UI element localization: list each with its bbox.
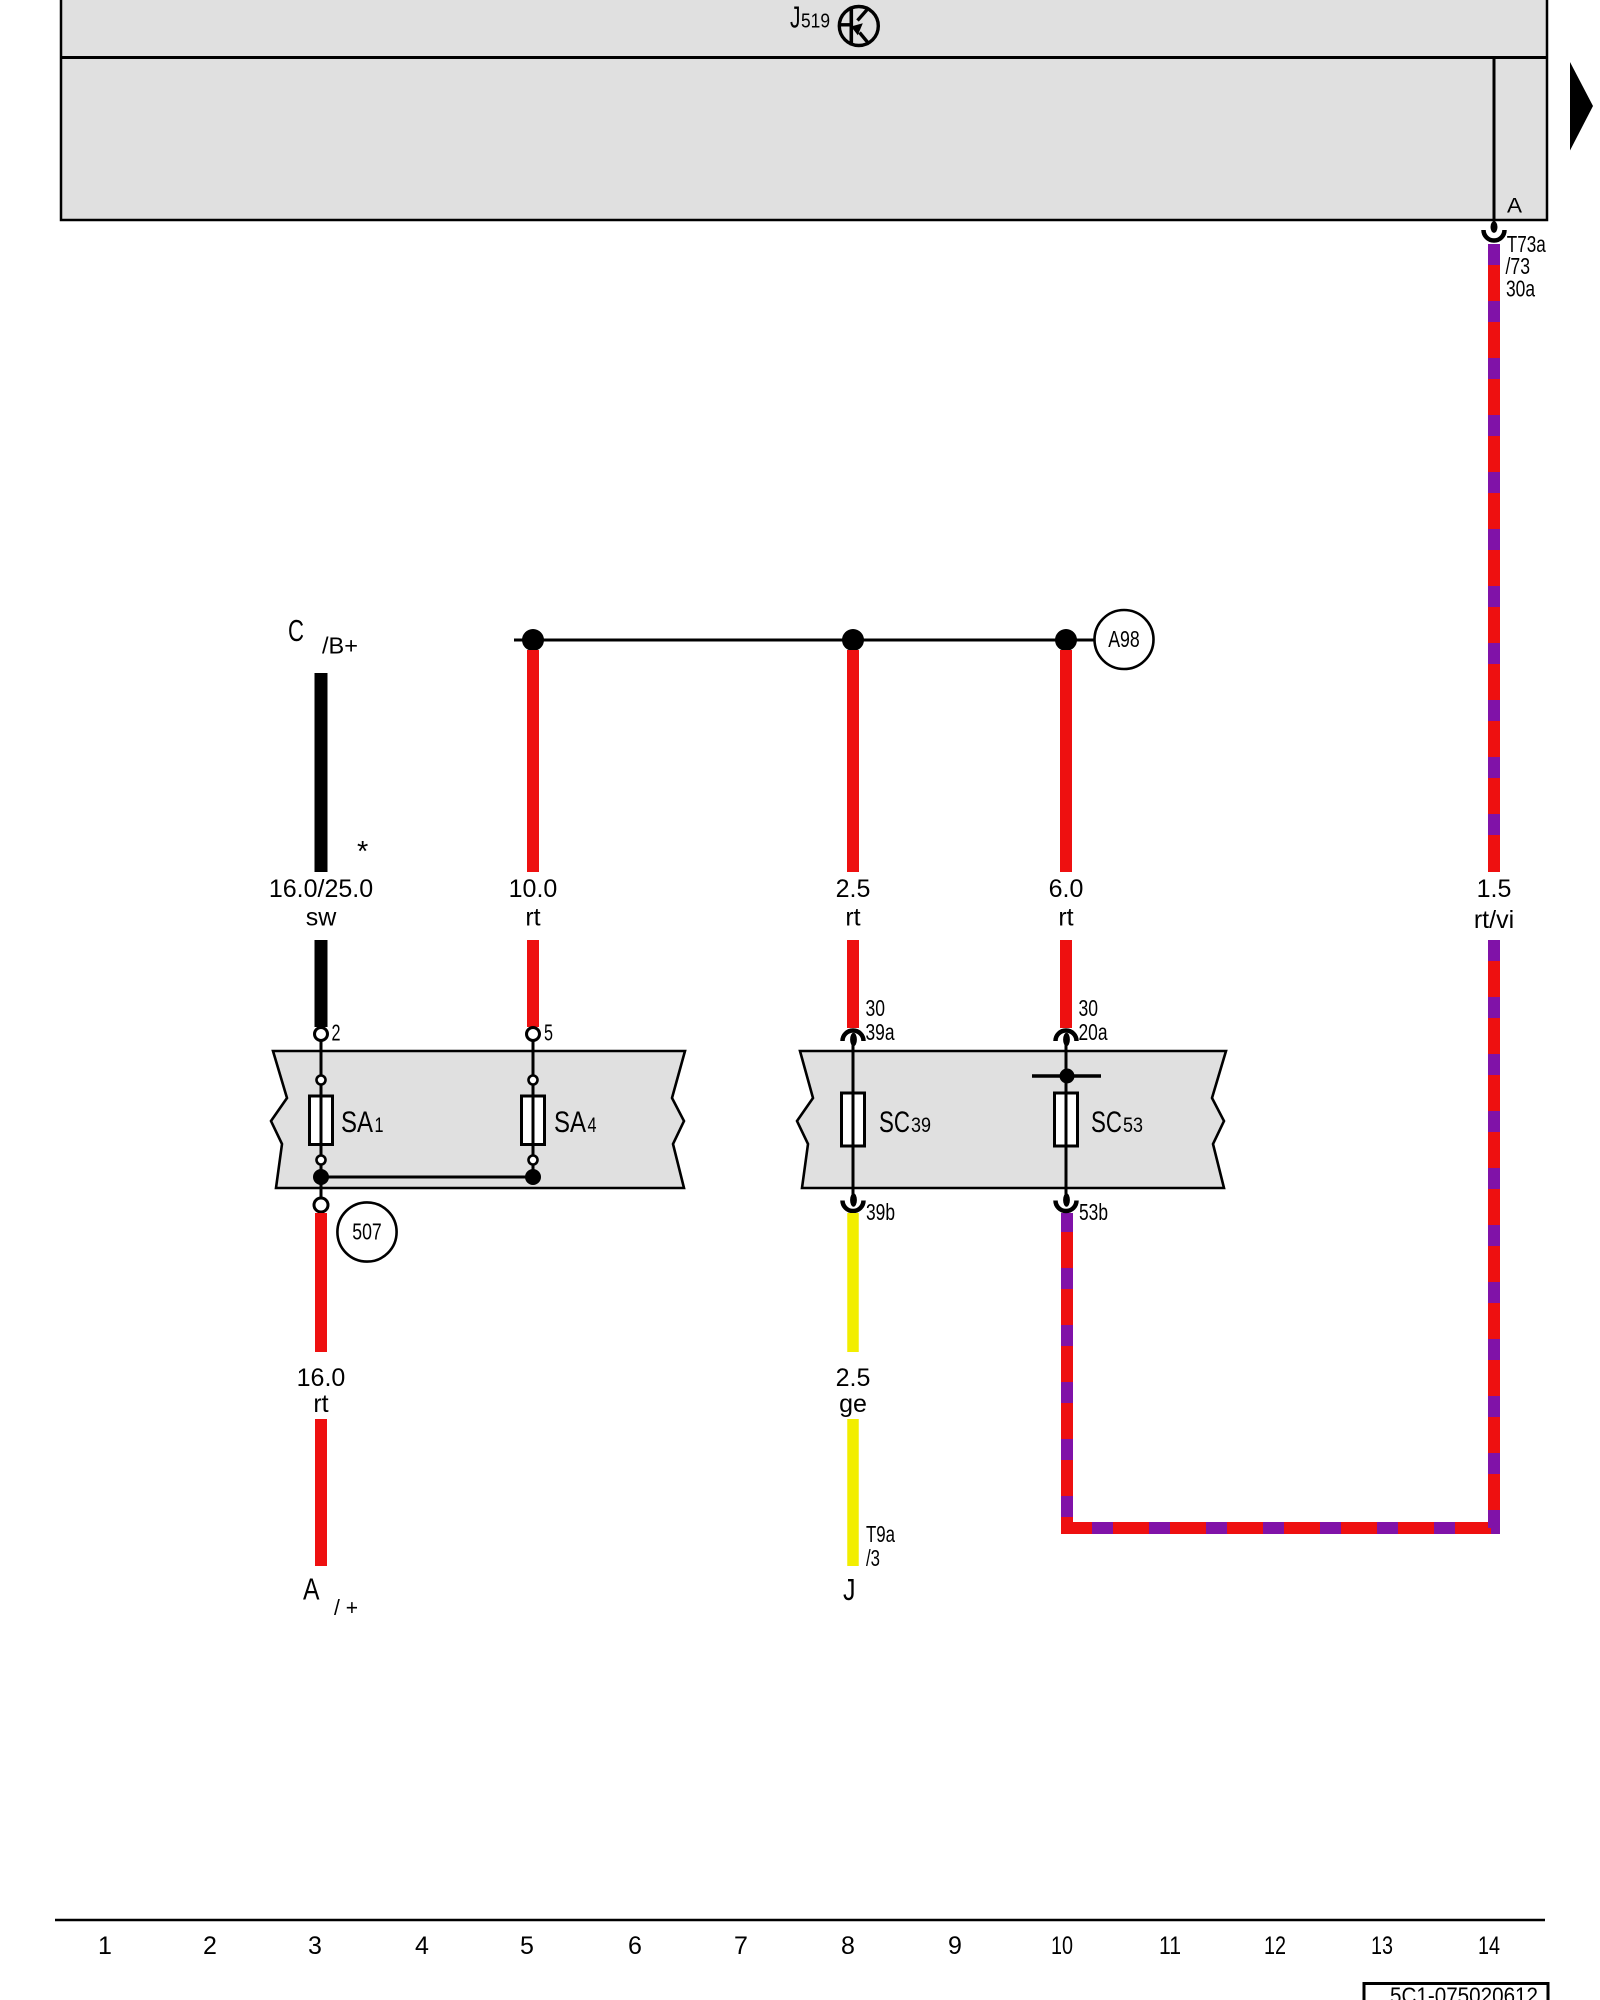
drawing number box [1364, 1983, 1548, 2000]
connector T73a pin [1484, 219, 1505, 241]
connector 53b pin+arc [1056, 1187, 1077, 1211]
grid numbers 1-14 [98, 1932, 1500, 1960]
label 6.0 rt [1049, 875, 1084, 932]
svg-text:519: 519 [801, 10, 830, 33]
svg-text:39b: 39b [866, 1199, 895, 1225]
svg-text:SA: SA [341, 1106, 373, 1139]
labels T9a /3 [866, 1521, 896, 1571]
label SC39 [879, 1106, 931, 1139]
connector 20a arc+pin (col 10) [1056, 1031, 1077, 1053]
terminal 5 circle (SA4 input) [527, 1028, 540, 1041]
svg-text:1: 1 [98, 1932, 112, 1960]
terminal circle (507 node) [314, 1198, 328, 1212]
pin A vertical line inside band [1493, 58, 1496, 221]
label SA1 [341, 1106, 384, 1139]
svg-text:/ +: / + [334, 1595, 358, 1620]
bottom grid line [55, 1919, 1545, 1922]
wire ge 2.5 lower [847, 1419, 859, 1566]
svg-text:20a: 20a [1079, 1019, 1109, 1045]
svg-text:rt: rt [313, 1390, 328, 1418]
svg-text:7: 7 [734, 1932, 748, 1960]
svg-text:8: 8 [841, 1932, 855, 1960]
fuse box SC (right, torn edges) [797, 1051, 1226, 1188]
svg-text:53: 53 [1123, 1114, 1143, 1137]
junction node col8 [842, 629, 864, 651]
svg-text:2.5: 2.5 [836, 875, 871, 903]
svg-text:3: 3 [308, 1932, 322, 1960]
label SC53 [1091, 1106, 1143, 1139]
svg-text:10: 10 [1051, 1932, 1073, 1960]
svg-text:A98: A98 [1108, 626, 1140, 652]
svg-text:39a: 39a [866, 1019, 896, 1045]
wire sw battery lower [315, 940, 328, 1027]
svg-text:6: 6 [628, 1932, 642, 1960]
junction node col10 [1055, 629, 1077, 651]
terminal 2 circle (SA1 input) [315, 1028, 328, 1041]
svg-text:rt: rt [525, 904, 540, 932]
wire rt 16.0 lower [315, 1419, 327, 1566]
svg-text:4: 4 [588, 1114, 597, 1137]
svg-text:2.5: 2.5 [836, 1364, 871, 1392]
junction node col5 [522, 629, 544, 651]
label A /+ (battery) [303, 1572, 358, 1621]
svg-text:/B+: /B+ [322, 633, 358, 659]
wire rt/vi lower U-path to 53b [1067, 940, 1494, 1528]
svg-text:30a: 30a [1506, 276, 1536, 302]
control-module symbol (circle with arrow K icon) [839, 7, 878, 46]
svg-text:5: 5 [520, 1932, 534, 1960]
svg-text:30: 30 [1079, 995, 1099, 1021]
svg-text:A: A [303, 1572, 320, 1607]
svg-text:sw: sw [306, 904, 338, 932]
junction dots + tie line SA1-SA4 outputs [313, 1169, 541, 1185]
node label 507 [337, 1202, 396, 1261]
svg-text:A: A [1507, 194, 1523, 218]
wire sw battery upper (col 3) [315, 673, 328, 872]
wire rt 2.5 upper (col 8) [847, 650, 859, 872]
wire rt 2.5 lower [847, 940, 859, 1028]
svg-text:2: 2 [203, 1932, 217, 1960]
labels T73a /73 30a [1506, 231, 1547, 302]
label 16.0 rt [297, 1364, 346, 1418]
svg-text:16.0: 16.0 [297, 1364, 346, 1392]
svg-text:ge: ge [839, 1390, 867, 1418]
labels 30 / 39a [866, 995, 896, 1045]
svg-text:rt: rt [1058, 904, 1073, 932]
label 1.5 rt/vi [1474, 875, 1514, 934]
label C /B+ [288, 613, 358, 659]
svg-text:SC: SC [879, 1106, 910, 1139]
svg-text:507: 507 [352, 1219, 382, 1245]
fuse SA4 internals [522, 1041, 545, 1178]
label 2.5 ge [836, 1364, 871, 1418]
svg-text:/3: /3 [866, 1545, 880, 1571]
labels 30 / 20a [1079, 995, 1109, 1045]
continuation arrow right [1570, 62, 1593, 151]
svg-text:J: J [790, 0, 801, 35]
svg-text:*: * [357, 836, 368, 868]
svg-text:13: 13 [1371, 1932, 1393, 1960]
svg-text:9: 9 [948, 1932, 962, 1960]
label SA4 [554, 1106, 597, 1139]
svg-text:rt: rt [845, 904, 860, 932]
svg-text:11: 11 [1159, 1932, 1181, 1960]
svg-text:C: C [288, 613, 304, 648]
svg-text:rt/vi: rt/vi [1474, 906, 1514, 934]
connector 39b pin+arc [843, 1187, 864, 1211]
svg-text:5C1-075020612: 5C1-075020612 [1390, 1983, 1538, 2000]
wire rt 6.0 lower [1060, 940, 1072, 1028]
fuse box SA (left, torn edges) [271, 1051, 685, 1188]
label 16.0/25.0 sw [269, 875, 373, 932]
fuse SC39 internals [842, 1050, 865, 1187]
svg-text:1: 1 [375, 1114, 384, 1137]
label 10.0 rt [509, 875, 558, 932]
svg-text:6.0: 6.0 [1049, 875, 1084, 903]
control module J519 band [61, 0, 1547, 220]
node label A98 [1095, 610, 1154, 669]
wire rt 10.0 lower [527, 940, 539, 1027]
node bus line [514, 639, 1095, 642]
label J519 [790, 0, 830, 35]
svg-text:14: 14 [1478, 1932, 1500, 1960]
svg-text:4: 4 [415, 1932, 429, 1960]
wire ge 2.5 upper (col 8) [847, 1213, 859, 1352]
svg-text:5: 5 [544, 1020, 553, 1046]
SA1 output line through box bottom [320, 1177, 323, 1198]
svg-text:SC: SC [1091, 1106, 1122, 1139]
svg-text:SA: SA [554, 1106, 586, 1139]
fuse SA1 internals [310, 1041, 333, 1178]
wire rt 10.0 upper (col 5) [527, 650, 539, 872]
svg-text:53b: 53b [1079, 1199, 1108, 1225]
wire rt 16.0 upper [315, 1213, 327, 1352]
svg-text:J: J [843, 1572, 856, 1607]
wire rt 6.0 upper (col 10) [1060, 650, 1072, 872]
svg-text:10.0: 10.0 [509, 875, 558, 903]
svg-text:39: 39 [911, 1114, 931, 1137]
label 2.5 rt [836, 875, 871, 932]
svg-text:30: 30 [866, 995, 886, 1021]
svg-text:T9a: T9a [866, 1521, 896, 1547]
fuse SC53 internals [1032, 1050, 1101, 1187]
svg-text:16.0/25.0: 16.0/25.0 [269, 875, 373, 903]
svg-text:2: 2 [332, 1020, 341, 1046]
svg-text:1.5: 1.5 [1477, 875, 1512, 903]
connector 39a arc+pin (col 8) [843, 1031, 864, 1053]
svg-text:12: 12 [1264, 1932, 1286, 1960]
wire rt/vi upper segment (col 14) [1488, 244, 1500, 872]
